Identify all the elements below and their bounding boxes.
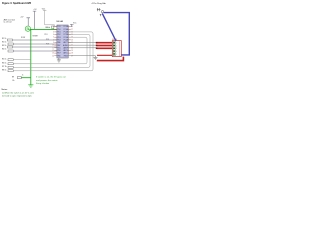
svg-text:PC6: PC6 xyxy=(57,26,60,28)
svg-text:10k: 10k xyxy=(12,80,15,82)
svg-text:Notes:: Notes: xyxy=(2,88,9,91)
header symbol S1 xyxy=(97,8,101,11)
svg-text:PD4: PD4 xyxy=(57,39,60,41)
svg-text:R1 1k: R1 1k xyxy=(2,38,6,40)
svg-text:PB7: PB7 xyxy=(57,45,60,47)
svg-text:PD0: PD0 xyxy=(57,29,60,31)
wire blue top xyxy=(104,13,130,55)
svg-text:13: 13 xyxy=(52,53,54,55)
supply +5V symbol B xyxy=(33,11,36,29)
svg-text:R2 1k: R2 1k xyxy=(2,42,6,44)
ground GND2 xyxy=(94,56,98,60)
svg-text:to +5V rail: to +5V rail xyxy=(4,21,13,24)
svg-text:10: 10 xyxy=(52,45,54,47)
svg-text:1) When the switch is on 5V: 1) When the switch is on 5V is sent xyxy=(2,92,34,95)
crystal Y1 xyxy=(52,26,54,28)
svg-text:R4 1k: R4 1k xyxy=(2,49,6,51)
wire rail B xyxy=(13,35,90,68)
svg-text:PD7: PD7 xyxy=(57,53,60,55)
node N1 xyxy=(101,11,103,13)
svg-text:16MHz: 16MHz xyxy=(45,27,50,29)
svg-text:14: 14 xyxy=(52,55,54,57)
svg-text:R5 1k: R5 1k xyxy=(2,58,6,60)
IC U1 left pin numbers xyxy=(52,26,54,57)
header symbol S2 xyxy=(100,14,102,16)
svg-text:19: 19 xyxy=(71,50,73,52)
svg-text:R8 1k: R8 1k xyxy=(2,70,6,72)
svg-text:R7 1k: R7 1k xyxy=(2,66,7,68)
supply VCC symbol D at IC top right xyxy=(70,24,74,26)
svg-text:27: 27 xyxy=(71,29,73,31)
svg-text:1k: 1k xyxy=(22,75,24,77)
supply +5V symbol A xyxy=(27,18,31,27)
svg-text:18: 18 xyxy=(71,53,73,55)
wire green net to IC xyxy=(30,28,57,30)
connector X1 xyxy=(112,41,121,57)
svg-text:PD1: PD1 xyxy=(57,32,60,34)
svg-text:PD1: PD1 xyxy=(44,34,47,36)
wire data2 xyxy=(68,44,96,46)
wire green vertical rail xyxy=(30,29,32,84)
wire data1 xyxy=(68,42,96,44)
wire rail C xyxy=(13,37,87,64)
IC U1 body xyxy=(57,25,68,58)
svg-text:Keep it below: Keep it below xyxy=(36,82,50,85)
svg-text:PD3: PD3 xyxy=(57,37,60,39)
IC U1 pins xyxy=(54,27,71,56)
svg-text:and powers the matrix: and powers the matrix xyxy=(36,79,58,82)
wire rail A xyxy=(13,32,93,71)
svg-text:ROW: ROW xyxy=(21,37,26,39)
transistor Q1 xyxy=(25,26,30,31)
svg-text:4 Pin Prog Hdr: 4 Pin Prog Hdr xyxy=(92,2,107,5)
svg-text:11: 11 xyxy=(52,47,54,49)
svg-text:PD2: PD2 xyxy=(57,34,60,36)
svg-text:PD6: PD6 xyxy=(57,50,60,52)
IC U1 right pin numbers xyxy=(71,26,73,57)
wire data3 xyxy=(68,47,96,49)
svg-text:R9: R9 xyxy=(12,76,14,78)
svg-text:RESET: RESET xyxy=(33,36,39,38)
supply VCC symbol C xyxy=(43,10,57,26)
wire data4 xyxy=(68,55,95,57)
svg-text:If switch is on, the 5V goes o: If switch is on, the 5V goes out xyxy=(36,76,66,79)
svg-text:PB0: PB0 xyxy=(57,55,60,57)
ground GND1 green xyxy=(28,85,33,87)
svg-text:Figure 4: Spellboard AVR: Figure 4: Spellboard AVR xyxy=(2,2,31,5)
svg-text:R3 1k: R3 1k xyxy=(2,45,6,47)
svg-text:R6 1k: R6 1k xyxy=(2,63,6,65)
svg-text:2) Used to sync improved scr: 2) Used to sync improved scripts xyxy=(2,95,32,98)
svg-text:23: 23 xyxy=(71,39,73,41)
wire power red bottom xyxy=(97,57,124,61)
IC U1 right pin labels xyxy=(63,25,69,57)
ground GND3 below IC xyxy=(57,58,61,62)
wire blue diagonal xyxy=(102,13,116,41)
svg-text:MEGA8: MEGA8 xyxy=(56,20,63,23)
svg-text:PD5: PD5 xyxy=(57,47,60,49)
IC U1 left pin labels xyxy=(57,26,60,57)
svg-text:PB6: PB6 xyxy=(57,42,60,44)
